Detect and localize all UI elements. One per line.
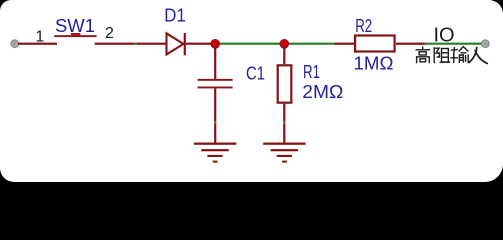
capacitor C1 top wire (214, 47, 216, 79)
glyph 输 (450, 47, 468, 64)
glyph 高 (416, 47, 431, 64)
svg-text:1: 1 (35, 29, 44, 46)
node junction 1 (211, 39, 220, 48)
resistor R2 right pin (396, 43, 425, 45)
diode D1 (167, 33, 184, 54)
wire to ground 1 (214, 124, 216, 143)
svg-text:2: 2 (105, 25, 114, 42)
capacitor C1 plates (198, 79, 233, 81)
wire pin 1 (18, 43, 57, 45)
wire (green net sliver) (134, 43, 136, 45)
svg-text:R2: R2 (355, 16, 372, 36)
terminal pad left (11, 40, 19, 48)
resistor R1 top pin (283, 47, 285, 65)
svg-text:SW1: SW1 (55, 16, 95, 36)
capacitor C1 bottom pin (214, 88, 216, 121)
svg-text:D1: D1 (164, 6, 186, 26)
wire sliver (net junction) (283, 121, 285, 123)
resistor R1 (278, 65, 292, 102)
svg-text:2MΩ: 2MΩ (302, 82, 343, 102)
svg-text:1MΩ: 1MΩ (354, 54, 394, 74)
wire net IO (green, junction1 to junction2) (215, 43, 284, 45)
glyph 阻 (434, 47, 450, 63)
wire pin 2 (95, 43, 135, 45)
svg-text:R1: R1 (303, 62, 320, 82)
ground 2 (263, 143, 305, 163)
wire net IO (green, R2 to terminal) (425, 43, 482, 45)
diode D1 cathode pin (186, 43, 212, 45)
terminal pad right (482, 40, 490, 48)
ground 1 (194, 143, 236, 163)
svg-text:IO: IO (434, 25, 455, 47)
diode D1 anode pin (137, 43, 166, 45)
node junction 2 (280, 39, 289, 48)
switch SW1 bar (54, 35, 96, 37)
svg-text:C1: C1 (246, 64, 265, 84)
resistor R2 left pin (334, 43, 354, 45)
resistor R2 (355, 36, 395, 52)
net annotation 高阻输入 (drawn glyphs) (416, 47, 488, 64)
resistor R1 bottom pin (283, 104, 285, 122)
wire net IO (green, junction2 to R2 pin) (284, 43, 334, 45)
white schematic background (0, 0, 503, 182)
wire to ground 2 (283, 124, 285, 143)
wire sliver (net junction) (214, 121, 216, 123)
switch SW1 actuator bump (71, 33, 80, 35)
glyph 入 (469, 47, 488, 64)
